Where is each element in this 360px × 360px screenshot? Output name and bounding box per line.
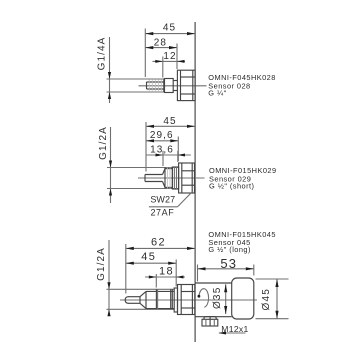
G1/2A extension lines / thread crest lines (d2) [107, 167, 179, 169]
thread tip (d1) [146, 82, 148, 89]
dimension 12 (d1) outside arrows [155, 60, 163, 63]
dimension 45 (d3) line [126, 262, 176, 264]
M12 connector (d3) [204, 317, 216, 320]
hex body (d1) [177, 70, 195, 100]
dimension 45 (d2) line [146, 125, 195, 127]
phi35 arc leader (d3) [199, 289, 209, 308]
taper (d3) [140, 291, 146, 296]
dimension 28 (d1) arrows [145, 46, 153, 49]
svg-text:28: 28 [154, 37, 167, 48]
dimension 12 (d1) line [153, 60, 186, 62]
svg-text:G1/4A: G1/4A [97, 37, 108, 71]
G1/2A arrows (d3) [107, 282, 110, 289]
extension line left (d3) [125, 244, 127, 294]
probe (d2) [144, 175, 146, 182]
svg-text:SW27: SW27 [150, 194, 175, 204]
washer (d2) [172, 167, 178, 189]
svg-text:G ¼": G ¼" [208, 89, 226, 98]
extension line left (d2) [145, 122, 147, 172]
svg-text:G ½" (short): G ½" (short) [209, 182, 254, 191]
dimension 53 (d3) line [198, 268, 254, 270]
svg-text:G1/2A: G1/2A [98, 126, 109, 160]
phi45 dimension line (d3) [276, 279, 278, 319]
extension line 12 left (d1) [162, 57, 164, 78]
dimension 13,6 (d2) line [146, 154, 191, 156]
hex chamfer lines (d1) [180, 70, 182, 100]
phi45 dimension extension lines (d3) [256, 278, 289, 280]
dimension 45 (d1) arrows [145, 32, 153, 35]
dimension 28 (d1) line [145, 47, 177, 49]
dimension 18 (d3) line [145, 276, 185, 278]
svg-text:53: 53 [220, 256, 237, 271]
mounting face line (shared right face of all three sensors) [194, 22, 196, 342]
extension line 28 right (d1) [176, 44, 178, 70]
dimension 29,6 (d2) line [146, 140, 178, 142]
svg-text:G1/2A: G1/2A [96, 247, 107, 281]
neck (d1) [173, 80, 177, 82]
dimension 45 (d3) arrows [126, 262, 134, 265]
dimension 18 (d3) outside arrows [149, 276, 157, 279]
SW27/27AF divider line (d2) [149, 206, 178, 208]
dimension 13,6 (d2) outside arrows [156, 154, 164, 157]
dimension 45 (d1) line [145, 33, 195, 35]
G1/2A vertical dimension line (d2) [110, 127, 112, 203]
centerline (d2) [138, 177, 205, 179]
phi35 dimension line (d3) [225, 284, 227, 314]
washer (d3) [174, 288, 177, 312]
hex body (d3) [178, 285, 195, 315]
hex body (d2) [179, 163, 195, 193]
leader to hex (d2) [178, 192, 192, 207]
svg-text:45: 45 [163, 22, 176, 33]
G1/2A vertical dimension line (d3) [108, 240, 110, 316]
extension line 13,6 right (d2) [177, 151, 179, 162]
extension line 45 right (d3) [175, 260, 177, 287]
M12x1 leader line with arrow (d3) [219, 332, 246, 334]
svg-text:18: 18 [159, 266, 174, 278]
svg-text:45: 45 [141, 251, 156, 263]
step lines (d3) [155, 289, 157, 309]
extension line 29,6 right (d2) [177, 137, 179, 162]
svg-text:62: 62 [151, 236, 166, 248]
dimension 45 (d2) arrows [146, 125, 154, 128]
extension lines 53 (d3) [197, 265, 199, 282]
svg-text:29,6: 29,6 [150, 130, 174, 141]
svg-text:13,6: 13,6 [150, 144, 174, 155]
thread root lines (d1) [147, 81, 164, 83]
svg-text:27AF: 27AF [150, 208, 174, 218]
phi35 cylinder (d3) [195, 282, 231, 284]
flare (d2) [163, 169, 166, 175]
extension line 13,6 left (d2) [162, 151, 164, 166]
svg-text:Ø35: Ø35 [212, 287, 223, 310]
shaft / thread root lines (d3) [145, 291, 147, 308]
phi45 housing cylinder (d3) [232, 278, 254, 319]
svg-text:45: 45 [163, 116, 176, 127]
centerline (d1) [139, 85, 207, 87]
thread marks (d1) [148, 79, 150, 92]
probe tip (d3) [125, 297, 128, 304]
thread section (d2) [164, 168, 166, 189]
dimension 62 (d3) arrows [126, 247, 134, 250]
G1/4A arrows (d1) [108, 72, 111, 79]
svg-text:12: 12 [163, 51, 176, 62]
G1/2A extension lines / thread crest lines (d3) [107, 288, 175, 290]
centerline (d3) [120, 299, 257, 301]
dimension 29,6 (d2) arrows [146, 139, 154, 142]
extension line left (d1) [144, 29, 146, 78]
dimension 53 (d3) arrows [198, 267, 206, 270]
groove (d3) [170, 289, 172, 309]
extension line 18 left (d3) [155, 274, 157, 288]
svg-text:Ø45: Ø45 [261, 288, 272, 311]
dimension 62 (d3) line [126, 247, 195, 249]
G1/2A arrows (d2) [109, 161, 112, 168]
svg-text:G ½" (long): G ½" (long) [208, 245, 251, 254]
G1/4A extension lines / thread crest lines (d1) [107, 78, 165, 80]
collar (d1) [165, 79, 174, 93]
G1/4A vertical dimension line (d1) [109, 37, 111, 103]
